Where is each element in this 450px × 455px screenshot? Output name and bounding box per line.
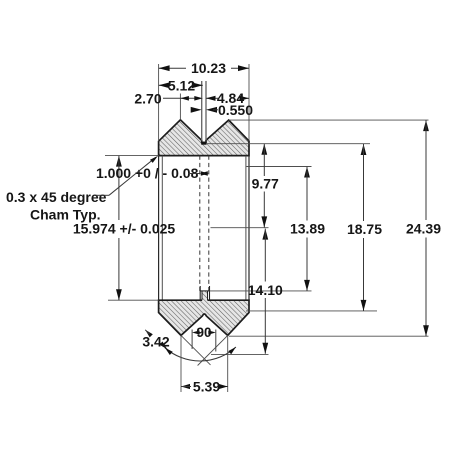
bore bottom step — [200, 286, 209, 300]
dimension 2.70 — [134, 91, 202, 107]
svg-text:24.39: 24.39 — [406, 221, 441, 237]
svg-text:2.70: 2.70 — [134, 91, 161, 107]
dimension 9.77 — [252, 144, 279, 228]
dimension 13.89 — [290, 167, 325, 291]
svg-text:14.10: 14.10 — [248, 282, 283, 298]
dimension 3.42 (chamfer length) — [142, 330, 169, 350]
dimension 24.39 — [406, 120, 441, 336]
svg-text:5.39: 5.39 — [193, 379, 220, 395]
dimension 14.10 — [248, 229, 283, 354]
extension line 310.9 — [246, 310, 377, 312]
bore bottom neck (hatched) — [202, 291, 208, 301]
top flange section (hatched) — [159, 120, 249, 156]
svg-text:5.12: 5.12 — [168, 77, 195, 93]
angle arc 90 degrees — [165, 347, 236, 361]
svg-text:0.3 x 45 degree: 0.3 x 45 degree — [6, 189, 107, 205]
svg-text:90: 90 — [196, 325, 211, 340]
extension line 336.2 (bottom points) — [229, 335, 429, 337]
svg-text:Cham Typ.: Cham Typ. — [30, 207, 101, 223]
extension line top (apex level) — [229, 119, 429, 121]
svg-text:15.974 +/- 0.025: 15.974 +/- 0.025 — [73, 221, 176, 237]
dimension 15.974 +/- 0.025 — [73, 156, 176, 301]
dimension 5.39 — [181, 379, 228, 395]
dimension 90 (cone angle) — [192, 325, 216, 352]
dimension 1.000 +0/-0.08 (bore) — [96, 165, 209, 181]
dimension 0.550 — [191, 102, 254, 118]
groove valley edge line (right side) — [206, 143, 370, 145]
extension line 166.5 — [246, 166, 311, 168]
slot floor (0.550 hole bottom) — [201, 142, 206, 145]
cylinder inner (thread) line left — [161, 156, 163, 301]
svg-text:10.23: 10.23 — [191, 60, 226, 76]
svg-text:9.77: 9.77 — [252, 176, 279, 192]
bore hidden line left — [199, 156, 201, 291]
dimension 15.974 extension lines — [105, 156, 159, 301]
chamfer note 0.3 x 45 degree Cham Typ. — [6, 156, 158, 223]
chamfer construction line right (extended) — [198, 335, 228, 365]
extension line flange right up — [248, 64, 250, 141]
dimension 4.84 — [206, 90, 249, 106]
bottom block section (hatched) — [159, 300, 249, 335]
cylinder inner (thread) line right — [245, 156, 247, 301]
extension line slot walls up — [202, 81, 206, 140]
svg-text:0.550: 0.550 — [218, 102, 253, 118]
dimension 5.12 — [159, 77, 203, 93]
extension line left apex up — [179, 94, 181, 120]
dimension 18.75 — [347, 144, 382, 311]
dimension 5.39 extension lines — [181, 335, 228, 392]
svg-text:3.42: 3.42 — [142, 333, 169, 349]
svg-text:1.000 +0 / - 0.08: 1.000 +0 / - 0.08 — [96, 165, 199, 181]
svg-text:13.89: 13.89 — [290, 221, 325, 237]
bore hidden line right — [208, 156, 210, 291]
cylinder outer wall left — [158, 156, 160, 301]
extension line 354.6 (cone apex) — [211, 354, 269, 356]
extension line 290.9 (bore step) — [210, 290, 312, 292]
cylinder outer wall right — [248, 156, 250, 301]
extension line 227.7 — [211, 227, 269, 229]
extension line flange left up — [158, 64, 160, 141]
dimension 10.23 — [159, 60, 249, 76]
svg-text:18.75: 18.75 — [347, 221, 382, 237]
chamfer construction line left (extended) — [181, 335, 211, 365]
